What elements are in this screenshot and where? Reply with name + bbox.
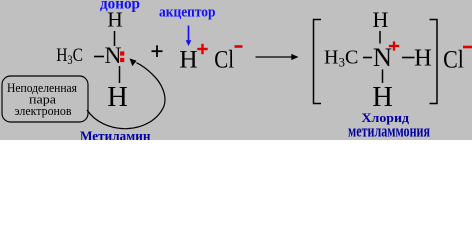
- svg-text:H: H: [372, 82, 393, 113]
- svg-text:Cl: Cl: [443, 46, 464, 74]
- svg-text:Cl: Cl: [214, 45, 234, 73]
- left bracket: [314, 20, 322, 104]
- callout box "Неподеленная пара электронов": [2, 76, 88, 122]
- svg-text:H: H: [179, 44, 197, 73]
- svg-text:акцептор: акцептор: [159, 4, 216, 20]
- bond N-H vertical (product bottom): [382, 70, 384, 84]
- bond C-N horizontal: [94, 56, 104, 58]
- curved arrow from box to lone pair: [87, 63, 165, 129]
- svg-text:H: H: [373, 7, 389, 32]
- bond H-N vertical (product top): [379, 31, 381, 44]
- bond N-H vertical (methylamine bottom): [119, 66, 121, 83]
- svg-text:Метиламин: Метиламин: [80, 130, 151, 141]
- reaction arrow: [256, 54, 299, 60]
- svg-text:H: H: [107, 7, 123, 31]
- red + charge on N: [389, 41, 399, 50]
- bond H-N vertical (methylamine top): [114, 31, 116, 46]
- right bracket: [430, 20, 438, 104]
- blue arrow from акцептор to H+: [186, 26, 192, 47]
- plus sign between reactants: [152, 45, 163, 57]
- svg-text:H3C: H3C: [324, 47, 358, 70]
- svg-text:H: H: [414, 45, 432, 72]
- red superscript - of product Cl: [463, 46, 472, 49]
- svg-text:H3C: H3C: [56, 45, 83, 67]
- lone pair : red dots: [120, 51, 124, 62]
- svg-text:N: N: [105, 43, 122, 69]
- bond C-N horizontal (product): [363, 57, 372, 59]
- red superscript + of H+: [197, 44, 207, 54]
- svg-text:электронов: электронов: [15, 104, 72, 118]
- svg-text:H: H: [107, 82, 128, 113]
- red superscript - of Cl: [235, 45, 243, 48]
- svg-text:метиламмония: метиламмония: [348, 121, 430, 140]
- bond N-H horizontal (product): [402, 57, 415, 59]
